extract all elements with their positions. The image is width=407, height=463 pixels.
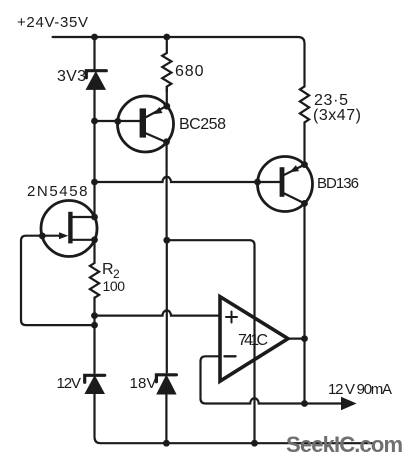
node Q2 collector — [301, 200, 308, 207]
node base wire meets Q1 circle — [114, 118, 121, 125]
node Q3 gate wire meets circle — [39, 233, 46, 240]
wire op-amp supply branch from V2 down through op-amp — [167, 240, 255, 443]
node Q1 collector — [163, 138, 170, 145]
wire V2 zener to bottom rail — [165, 394, 167, 444]
svg-text:(3x47): (3x47) — [313, 107, 361, 124]
wire Q3 gate return left and down — [21, 236, 95, 325]
node V1 gate return tap — [91, 322, 98, 329]
wire op-amp noninverting input with hop over V2 — [95, 310, 221, 315]
svg-text:BC258: BC258 — [179, 116, 226, 133]
node feedback / output arrow on V3 — [301, 400, 308, 407]
node op-amp output on V3 — [301, 335, 308, 342]
wire base of Q1 — [95, 120, 141, 122]
svg-text:18V: 18V — [130, 375, 157, 392]
svg-text:741C: 741C — [238, 332, 268, 349]
wire V1 zener to bottom rail — [95, 393, 373, 443]
wire V2 resistor to Q1 emitter — [166, 87, 168, 106]
svg-text:3V3: 3V3 — [57, 68, 86, 85]
node Q1 emitter — [163, 103, 170, 110]
node V1 / Q2 base wire — [91, 179, 98, 186]
resistor R2 100 — [90, 263, 99, 298]
wire V3 output node down to feedback node — [303, 339, 305, 404]
wire V1 R2 to noninverting node — [93, 298, 95, 316]
node bottom rail / V2 — [163, 440, 170, 447]
wire V3 resistor to Q2 emitter — [303, 123, 305, 165]
node Q3 source — [91, 236, 98, 243]
wire V1 Q3 source to R2 — [93, 240, 95, 263]
wire op-amp output stub — [288, 338, 305, 340]
node junction top rail / V1 — [91, 34, 98, 41]
svg-text:BD136: BD136 — [317, 175, 359, 192]
resistor 23.5 (3x47) — [300, 86, 309, 122]
wire top rail — [53, 37, 305, 86]
wire V3 Q2 collector to op-amp output node — [303, 203, 305, 338]
svg-text:SeekIC.com: SeekIC.com — [286, 432, 403, 457]
node Q2 base wire meets circle — [254, 179, 261, 186]
wire output arrow — [305, 402, 343, 404]
transistor Q1 BC258 — [118, 96, 174, 152]
svg-text:12 V 90mA: 12 V 90mA — [328, 381, 392, 398]
node base of Q1 on V1 — [91, 118, 98, 125]
wire feedback from inverting input with hop over supply line — [201, 356, 305, 403]
node V1 noninverting tap — [91, 312, 98, 319]
transistor Q2 BD136 — [258, 157, 313, 212]
node V2 branch to op-amp supply — [163, 237, 170, 244]
node Q3 drain — [91, 214, 98, 221]
wire V2 branch node to 18V zener — [166, 240, 168, 372]
svg-text:100: 100 — [103, 278, 126, 294]
zener diode D3 18V — [156, 375, 176, 394]
op-amp U1 741C — [220, 297, 288, 382]
svg-text:2N5458: 2N5458 — [27, 183, 88, 200]
wire V1 node to 12V zener — [93, 316, 95, 373]
svg-text:+24V-35V: +24V-35V — [17, 14, 88, 31]
node Q2 emitter — [301, 161, 308, 168]
svg-text:680: 680 — [175, 63, 204, 80]
zener diode D2 12V — [85, 375, 105, 393]
wire base of Q2 with hop over V2 — [95, 177, 280, 182]
transistor Q3 2N5458 JFET — [41, 201, 97, 257]
node bottom rail / op-amp supply line — [251, 440, 258, 447]
wire V1 top rail to zener D1 — [93, 37, 95, 69]
node junction top rail / V2 — [163, 34, 170, 41]
wire V1 zener D1 to base node — [93, 89, 95, 121]
wire V2 Q1 collector down to branch node — [166, 142, 168, 240]
zener diode D1 3V3 — [86, 71, 106, 89]
svg-text:R: R — [102, 261, 114, 278]
wire V1 base node to JFET drain — [93, 121, 95, 217]
resistor 680 — [162, 37, 171, 92]
svg-text:12V: 12V — [57, 375, 82, 392]
